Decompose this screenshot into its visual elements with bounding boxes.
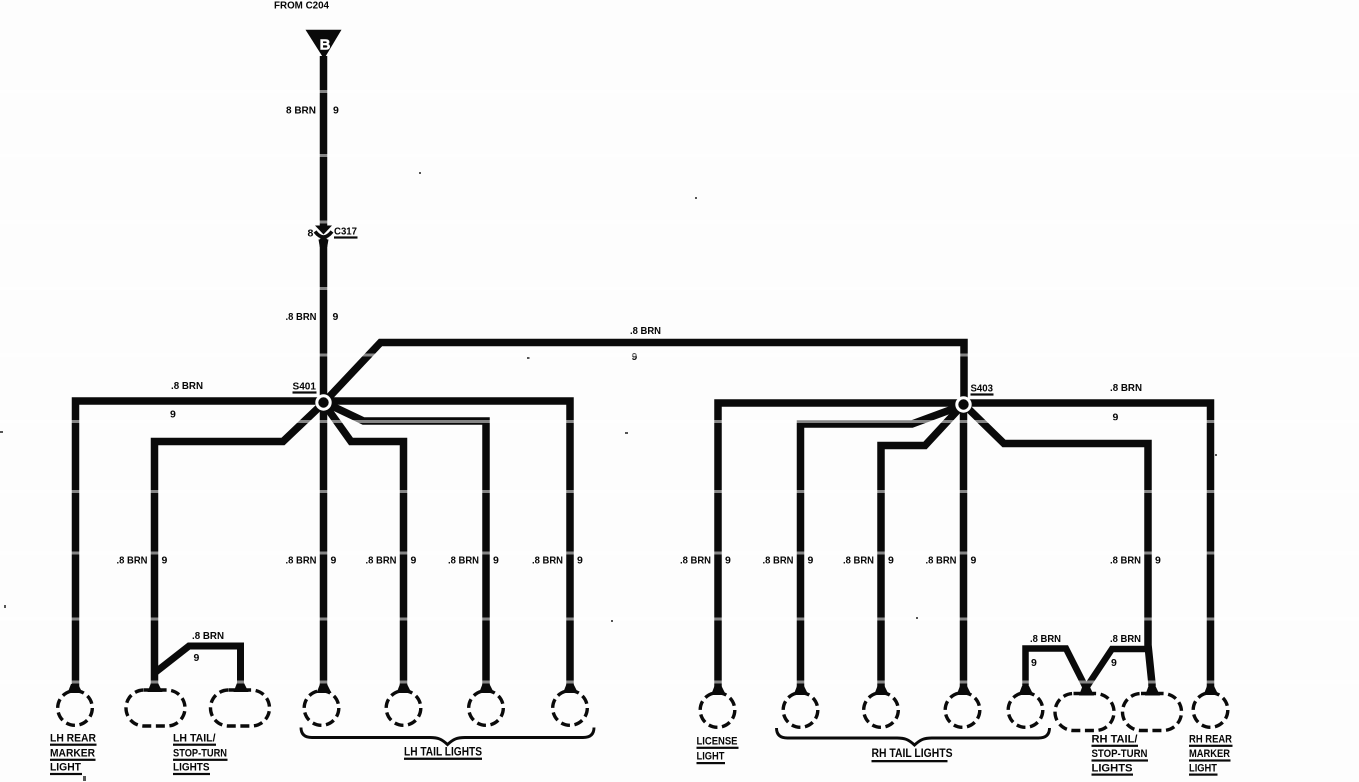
- svg-text:.8 BRN: .8 BRN: [1030, 633, 1061, 645]
- wire: jog RH tail/stop-turn lamp 1 up to main run: [1086, 649, 1148, 688]
- svg-text:9: 9: [1031, 657, 1037, 669]
- connector C317 female cup: [315, 232, 332, 238]
- wire: S401 right to LH tail light 4: [324, 401, 571, 692]
- svg-text:9: 9: [725, 555, 731, 567]
- lamp: LH tail light 1: [317, 684, 332, 693]
- svg-text:LH REAR: LH REAR: [50, 733, 96, 745]
- svg-text:C317: C317: [334, 226, 357, 238]
- lamp: RH tail/stop-turn lamp 2: [1145, 686, 1160, 696]
- svg-text:9: 9: [333, 105, 339, 117]
- svg-text:STOP-TURN: STOP-TURN: [1092, 748, 1148, 760]
- wire: jog RH tail light 4 to stop-turn lamp 1: [1026, 649, 1087, 695]
- lamp: RH tail light 2: [874, 686, 889, 695]
- svg-text:LIGHTS: LIGHTS: [173, 762, 210, 774]
- svg-text:LIGHT: LIGHT: [1189, 762, 1217, 774]
- wire: S403 left to license light: [718, 403, 964, 694]
- svg-text:.8 BRN: .8 BRN: [926, 555, 957, 567]
- wire: S401 up-right over to S403: [324, 343, 965, 405]
- lamp: RH tail light 3: [957, 686, 972, 695]
- svg-text:LH TAIL/: LH TAIL/: [173, 733, 216, 745]
- svg-text:9: 9: [194, 652, 200, 664]
- svg-text:RH REAR: RH REAR: [1189, 734, 1232, 746]
- lamp: LH tail light 3: [479, 684, 494, 693]
- svg-text:.8 BRN: .8 BRN: [286, 555, 317, 567]
- connector B triangle: [306, 30, 342, 59]
- connector C317 male arrow: [315, 226, 332, 235]
- wire: S401 left to LH rear marker light: [76, 401, 324, 692]
- svg-text:9: 9: [170, 409, 176, 421]
- scan band artifacts: [0, 90, 1359, 684]
- lamp: RH tail light 1: [794, 686, 809, 695]
- svg-text:LICENSE: LICENSE: [697, 735, 738, 747]
- svg-text:9: 9: [1155, 555, 1161, 567]
- svg-text:9: 9: [1111, 657, 1117, 669]
- wire: S403 straight down to RH tail light 3: [960, 404, 968, 694]
- svg-text:STOP-TURN: STOP-TURN: [173, 747, 227, 759]
- svg-text:.8 BRN: .8 BRN: [192, 630, 224, 642]
- lamp: LH rear marker light: [68, 684, 83, 693]
- wire: S401 straight down to LH tail light 1: [320, 402, 328, 692]
- svg-text:9: 9: [333, 311, 339, 323]
- svg-text:FROM C204: FROM C204: [274, 1, 329, 12]
- svg-text:S401: S401: [293, 381, 317, 393]
- svg-text:.8 BRN: .8 BRN: [843, 555, 874, 567]
- splice S401: [315, 394, 331, 410]
- lamp: LH tail light 4: [563, 684, 578, 693]
- svg-text:.8 BRN: .8 BRN: [117, 555, 148, 567]
- svg-text:.8 BRN: .8 BRN: [630, 325, 661, 337]
- svg-text:.8 BRN: .8 BRN: [286, 311, 317, 323]
- splice S403: [955, 396, 971, 412]
- lamp: RH rear marker light: [1204, 686, 1219, 695]
- wire: feed from connector B down to C317: [320, 56, 328, 226]
- wire: S403 to RH tail light 1: [801, 405, 964, 694]
- wire: C317 to splice S401: [320, 239, 328, 403]
- brace: LH tail lights group: [301, 728, 594, 745]
- wire: S403 right to RH rear marker light: [964, 403, 1211, 694]
- svg-text:MARKER: MARKER: [1189, 748, 1230, 760]
- lamp: LH tail light 2: [397, 684, 412, 693]
- svg-text:9: 9: [577, 555, 583, 567]
- connector C317 label underline: [334, 236, 358, 238]
- wire: S401 to LH tail light 2: [324, 403, 404, 692]
- svg-text:9: 9: [971, 555, 977, 567]
- svg-text:.8 BRN: .8 BRN: [532, 555, 563, 567]
- wire: branch jog to LH tail/stop-turn lamp 2: [155, 646, 241, 692]
- lamp: RH tail/stop-turn lamp 1: [1079, 686, 1094, 696]
- wire: S401 to LH tail/stop-turn lamp 1: [155, 403, 324, 692]
- svg-text:.8 BRN: .8 BRN: [1110, 382, 1142, 394]
- svg-text:RH TAIL LIGHTS: RH TAIL LIGHTS: [872, 748, 953, 760]
- svg-text:9: 9: [162, 555, 168, 567]
- lamp: license light: [711, 686, 726, 695]
- wire: S403 to RH tail/stop-turn lamp 2: [964, 404, 1153, 686]
- wire: S403 to RH tail light 2: [881, 404, 964, 694]
- svg-text:9: 9: [888, 555, 894, 567]
- svg-text:.8 BRN: .8 BRN: [1110, 633, 1141, 645]
- wire: flare below C317: [319, 240, 329, 248]
- svg-text:B: B: [320, 37, 331, 54]
- svg-text:RH TAIL/: RH TAIL/: [1092, 734, 1138, 746]
- svg-text:9: 9: [493, 555, 499, 567]
- wire: S401 to LH tail light 3: [324, 402, 487, 692]
- scan speck artifacts: [0, 172, 1217, 781]
- brace: RH tail lights group: [777, 728, 1050, 745]
- svg-text:.8 BRN: .8 BRN: [1110, 555, 1141, 567]
- svg-text:9: 9: [632, 351, 638, 363]
- svg-text:.8 BRN: .8 BRN: [680, 555, 711, 567]
- svg-text:9: 9: [411, 555, 417, 567]
- lamp: LH tail/stop-turn lamp 2: [234, 683, 249, 692]
- lamp: LH tail/stop-turn lamp 1: [148, 683, 163, 692]
- svg-text:.8 BRN: .8 BRN: [366, 555, 397, 567]
- svg-text:9: 9: [808, 555, 814, 567]
- svg-text:.8 BRN: .8 BRN: [448, 555, 479, 567]
- svg-text:8 BRN: 8 BRN: [286, 105, 316, 117]
- svg-text:LH TAIL LIGHTS: LH TAIL LIGHTS: [404, 747, 482, 759]
- svg-text:LIGHT: LIGHT: [697, 751, 725, 763]
- svg-text:MARKER: MARKER: [50, 747, 95, 759]
- svg-text:LIGHT: LIGHT: [50, 762, 81, 774]
- svg-text:LIGHTS: LIGHTS: [1092, 762, 1133, 774]
- svg-text:9: 9: [331, 555, 337, 567]
- svg-text:.8 BRN: .8 BRN: [763, 555, 794, 567]
- svg-text:8: 8: [308, 228, 314, 240]
- lamp: RH tail light 4: [1019, 686, 1034, 695]
- svg-text:S403: S403: [971, 383, 994, 395]
- svg-text:.8 BRN: .8 BRN: [171, 380, 203, 392]
